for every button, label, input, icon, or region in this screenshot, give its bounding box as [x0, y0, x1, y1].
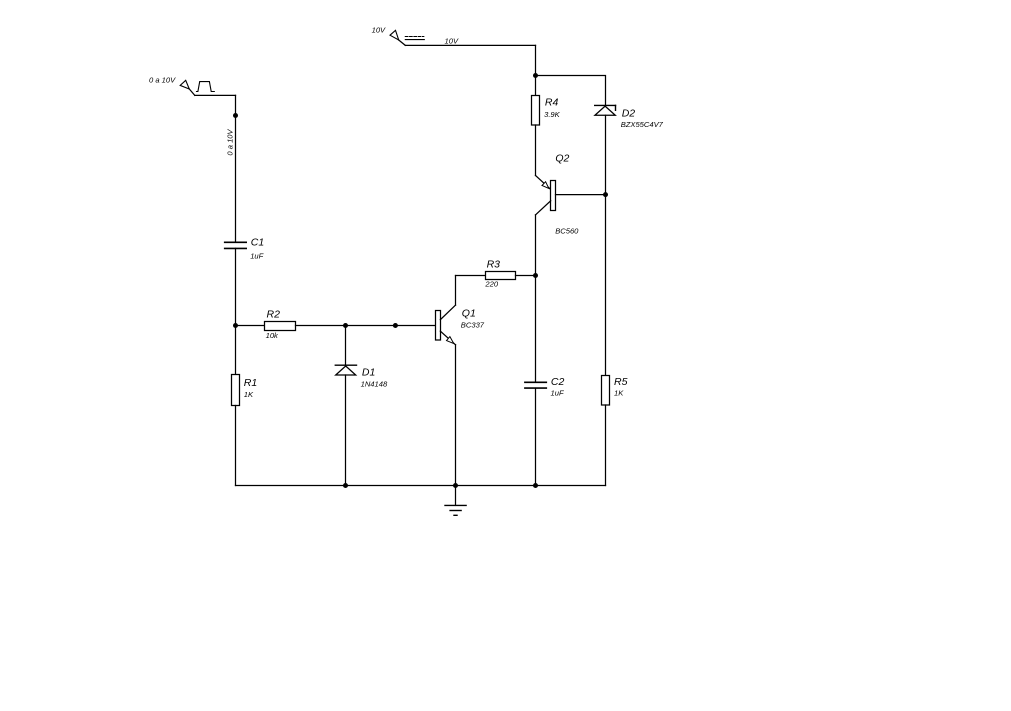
Q1 emitter arrow: [447, 337, 454, 344]
svg-text:1K: 1K: [614, 388, 624, 397]
junction dot R3 right: [533, 273, 538, 278]
svg-text:1N4148: 1N4148: [361, 380, 388, 389]
wire R2 to Q1 base: [296, 325, 436, 327]
zener diode D2: [595, 105, 616, 115]
capacitor C2: [525, 382, 546, 388]
wire input vertical to C1: [235, 95, 237, 242]
wire C1 to node A: [235, 248, 237, 325]
wire D1 to ground rail: [345, 375, 347, 486]
wire C2 to ground rail: [535, 388, 537, 485]
Q1 collector vertical: [455, 276, 457, 306]
junction dot 10V node: [533, 73, 538, 78]
junction dot D1 at rail: [343, 483, 348, 488]
wire R3 left: [456, 275, 486, 277]
svg-text:10k: 10k: [266, 331, 279, 340]
wire 10V vertical: [535, 45, 537, 75]
wire Q2 collector vertical to C2: [535, 215, 537, 382]
svg-text:0 a 10V: 0 a 10V: [149, 76, 176, 85]
wire 10V node to D2 branch: [536, 76, 606, 106]
svg-text:C2: C2: [551, 376, 565, 388]
svg-text:C1: C1: [251, 237, 264, 249]
Q2 emitter arrow: [542, 182, 549, 189]
wire 10V horizontal: [405, 44, 535, 46]
resistor R5: [602, 376, 610, 406]
wire node B to D1: [345, 326, 347, 366]
junction dot input net: [233, 113, 238, 118]
svg-text:3.9K: 3.9K: [544, 110, 561, 119]
svg-text:R2: R2: [267, 309, 281, 321]
transistor Q1 base bar: [436, 311, 441, 341]
junction dot C2 at rail: [533, 483, 538, 488]
supply connector lead: [399, 40, 406, 45]
wire node A to R2: [236, 325, 265, 327]
svg-text:R5: R5: [614, 376, 628, 388]
resistor R2: [265, 322, 296, 331]
resistor R1: [232, 375, 240, 406]
svg-text:D1: D1: [362, 367, 375, 379]
ground rail wire: [236, 485, 606, 487]
svg-text:D2: D2: [622, 107, 636, 119]
junction dot Q2 base node: [603, 192, 608, 197]
junction dot Q1 emitter at rail: [453, 483, 458, 488]
node C junction dot: [393, 323, 398, 328]
transistor Q2 base bar: [551, 181, 556, 211]
svg-text:R4: R4: [545, 97, 559, 109]
wire 10V node to R4: [535, 76, 537, 96]
ground stub: [455, 486, 457, 506]
ground symbol: [445, 505, 466, 515]
capacitor C1: [225, 242, 247, 248]
resistor R4: [532, 96, 540, 126]
Q1 emitter vertical to rail: [455, 345, 457, 486]
svg-text:BC560: BC560: [555, 226, 579, 235]
input connector triangle: [180, 80, 189, 89]
svg-text:Q2: Q2: [555, 153, 569, 165]
Q1 collector diagonal: [440, 305, 455, 320]
node B junction dot: [343, 323, 348, 328]
pulse waveform symbol: [197, 82, 215, 92]
wire R1 to ground rail: [235, 406, 237, 486]
svg-text:10V: 10V: [372, 25, 386, 34]
wire R5 to ground rail: [605, 405, 607, 486]
wire input horizontal: [195, 94, 236, 96]
input connector lead: [189, 89, 195, 95]
resistor R3: [486, 272, 516, 280]
svg-text:BZX55C4V7: BZX55C4V7: [621, 120, 664, 129]
Q1 emitter diagonal: [440, 331, 455, 345]
diode D1: [335, 365, 356, 375]
node A junction dot: [233, 323, 238, 328]
Q2 collector diagonal: [536, 201, 551, 215]
wire R3 right: [516, 275, 536, 277]
svg-text:1uF: 1uF: [250, 252, 263, 261]
svg-text:10V: 10V: [445, 36, 459, 45]
wire node A to R1: [235, 326, 237, 375]
Q2 base lead: [556, 194, 606, 196]
svg-text:BC337: BC337: [461, 321, 485, 330]
svg-text:1K: 1K: [244, 390, 254, 399]
wire Q2 base node to R5: [605, 195, 607, 376]
supply symbol solid bar: [405, 39, 424, 41]
wire R4 to Q2 emitter: [535, 125, 537, 176]
svg-text:1uF: 1uF: [551, 388, 564, 397]
wire D2 to Q2 base node: [605, 115, 607, 194]
transistor Q2 emitter diagonal: [536, 176, 551, 190]
svg-text:Q1: Q1: [462, 307, 476, 319]
svg-text:R3: R3: [487, 259, 501, 271]
svg-text:220: 220: [484, 280, 498, 289]
svg-text:R1: R1: [244, 377, 257, 389]
svg-text:0 a 10V: 0 a 10V: [226, 128, 235, 155]
supply symbol dashed bar: [405, 36, 424, 38]
supply connector triangle: [390, 30, 399, 40]
